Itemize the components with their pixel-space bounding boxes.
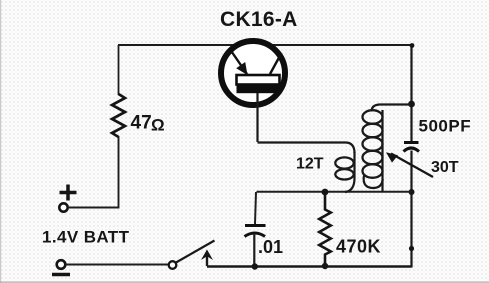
inductor L1 12T loops: [335, 152, 354, 192]
terminal negative: [57, 260, 66, 269]
terminal positive: [59, 203, 67, 211]
wire right rail lower: [410, 151, 412, 268]
svg-text:12T: 12T: [296, 156, 324, 173]
scan edge bottom: [0, 282, 489, 283]
svg-text:500PF: 500PF: [419, 117, 472, 136]
transistor Q1 base bar solid: [237, 84, 280, 93]
wire mid horizontal: [257, 191, 412, 193]
svg-text:.01: .01: [258, 237, 283, 257]
inductor L2 30T loops: [363, 110, 383, 192]
label 470K: [336, 237, 381, 257]
wire left vertical lower: [69, 136, 119, 208]
capacitor C1 .01 plate top: [245, 224, 266, 227]
node resistor R2 bottom: [322, 263, 328, 269]
transistor Q1 body circle: [221, 41, 285, 105]
wire left vertical upper: [118, 45, 120, 95]
svg-text:30T: 30T: [431, 159, 459, 176]
wire base lead: [256, 93, 258, 142]
wire cap C1 top lead: [255, 192, 256, 224]
wire 30T top lead: [372, 105, 412, 112]
arrow pointer to 30T: [386, 152, 433, 177]
capacitor C2 500PF plate bottom curved: [404, 148, 420, 152]
svg-text:1.4V BATT: 1.4V BATT: [42, 228, 130, 247]
switch S1 contact arrow: [201, 250, 213, 267]
label .01: [258, 237, 283, 257]
wire cap C1 bottom lead: [253, 234, 255, 267]
wire bottom rail: [207, 265, 412, 268]
wire top rail: [118, 44, 413, 46]
svg-text:470K: 470K: [336, 237, 381, 257]
transistor Q1 base bar outline: [237, 75, 280, 85]
svg-text:47: 47: [131, 113, 152, 134]
minus sign: [52, 273, 70, 276]
svg-text:Ω: Ω: [151, 116, 165, 135]
switch S1 pivot: [169, 261, 177, 269]
node resistor R2 top: [322, 189, 329, 196]
label 1.4V BATT: [42, 228, 130, 247]
transistor Q1 collector line: [270, 53, 282, 74]
label 12T: [296, 156, 324, 173]
capacitor C1 .01 plate bottom curved: [245, 233, 266, 237]
wire battery to switch: [66, 264, 170, 266]
scan edge left: [0, 0, 1, 283]
node cap C1 bottom: [252, 263, 258, 269]
capacitor C2 500PF plate top: [404, 141, 419, 144]
transistor Q1 emitter line with arrow: [232, 52, 248, 76]
label 30T: [431, 159, 459, 176]
label CK16-A: [220, 8, 298, 31]
wire base to 12T top: [258, 143, 355, 154]
node ink dot on rail: [409, 246, 414, 251]
node 30T top junction: [408, 101, 415, 108]
resistor R2 470K: [319, 192, 331, 266]
label 47ohm: [131, 113, 165, 135]
plus sign: [60, 185, 77, 201]
svg-text:CK16-A: CK16-A: [220, 8, 298, 31]
switch S1 blade: [176, 241, 215, 263]
node mid rail junction: [409, 189, 415, 195]
resistor R1 47ohm: [112, 94, 125, 137]
node top right corner: [410, 43, 415, 48]
label 500PF: [419, 117, 472, 136]
wire right rail upper: [410, 45, 412, 142]
